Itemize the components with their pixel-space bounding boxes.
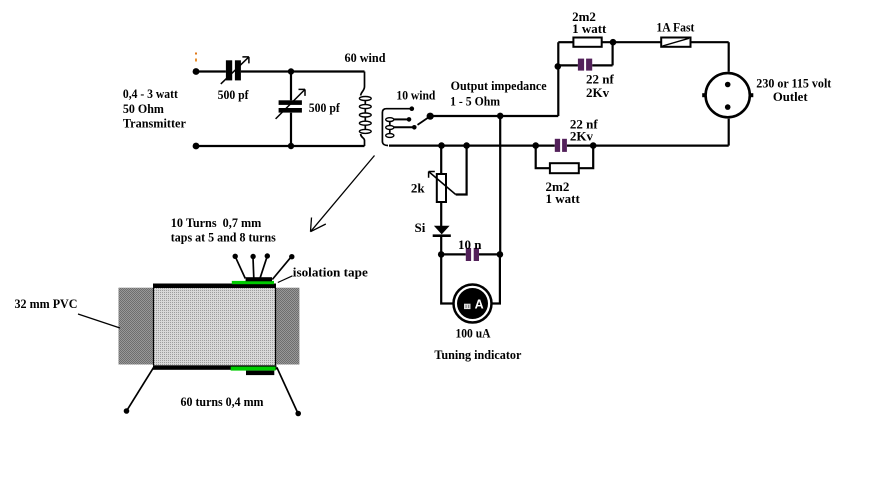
svg-text:2Kv: 2Kv <box>586 85 610 100</box>
svg-text:1A Fast: 1A Fast <box>656 20 695 35</box>
svg-text:1 watt: 1 watt <box>572 21 607 36</box>
svg-text:10 wind: 10 wind <box>396 88 436 103</box>
svg-text:50 Ohm: 50 Ohm <box>123 101 164 116</box>
svg-text:100 uA: 100 uA <box>456 326 492 341</box>
svg-text:Transmitter: Transmitter <box>123 116 186 131</box>
svg-text:500 pf: 500 pf <box>218 87 250 102</box>
svg-text:isolation tape: isolation tape <box>293 265 368 280</box>
svg-text:Tuning indicator: Tuning indicator <box>434 347 521 362</box>
svg-text:2k: 2k <box>411 180 426 195</box>
svg-text:1 - 5 Ohm: 1 - 5 Ohm <box>450 93 500 108</box>
svg-text:10 n: 10 n <box>458 237 482 252</box>
svg-text:2Kv: 2Kv <box>570 128 594 143</box>
svg-text:0,4 - 3 watt: 0,4 - 3 watt <box>123 86 179 101</box>
svg-text:Outlet: Outlet <box>773 89 808 104</box>
svg-text:10 Turns 0,7 mm: 10 Turns 0,7 mm <box>171 215 262 230</box>
svg-text:Si: Si <box>415 220 426 235</box>
svg-text:Output impedance: Output impedance <box>451 78 547 93</box>
svg-text:500 pf: 500 pf <box>309 100 341 115</box>
svg-text:A: A <box>475 297 484 311</box>
svg-text:60 wind: 60 wind <box>345 50 387 65</box>
svg-text:32 mm PVC: 32 mm PVC <box>15 296 78 311</box>
svg-text:1 watt: 1 watt <box>546 191 581 206</box>
svg-text:taps at 5 and 8 turns: taps at 5 and 8 turns <box>171 230 276 245</box>
svg-text:60 turns 0,4 mm: 60 turns 0,4 mm <box>181 394 264 409</box>
